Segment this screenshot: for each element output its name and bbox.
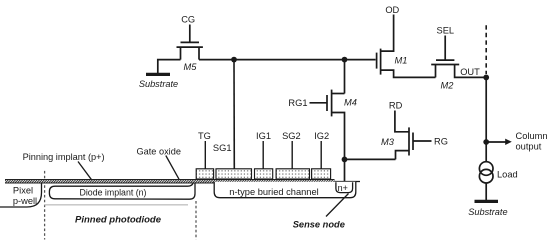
junction node M4 drain xyxy=(342,57,348,63)
junction node OUT xyxy=(483,75,489,81)
transistor M3 xyxy=(396,127,432,159)
wire junction down to SG1 gate xyxy=(233,60,235,169)
svg-text:output: output xyxy=(516,142,542,152)
wire junction down to M4 drain xyxy=(344,60,346,94)
wire OUT down to load xyxy=(485,77,487,161)
transistor M1 xyxy=(377,15,436,78)
transistor M4 xyxy=(327,90,345,160)
wire TG lead xyxy=(204,141,206,169)
svg-text:CG: CG xyxy=(181,15,195,25)
wire IG2 lead xyxy=(320,141,322,169)
wire load to ground xyxy=(485,183,487,201)
n+ sense diffusion box xyxy=(336,182,353,192)
svg-text:Substrate: Substrate xyxy=(468,207,507,217)
svg-text:IG1: IG1 xyxy=(256,131,271,141)
ground substrate right xyxy=(475,200,499,203)
junction node sense xyxy=(342,157,348,163)
wire SEL gate lead xyxy=(444,36,446,61)
wire RG1 gate lead xyxy=(310,102,328,104)
svg-text:IG2: IG2 xyxy=(314,131,329,141)
svg-text:M5: M5 xyxy=(184,62,198,72)
svg-text:n-type buried channel: n-type buried channel xyxy=(229,187,318,197)
n-type buried channel box xyxy=(214,182,356,198)
pointer pinning implant xyxy=(78,162,94,184)
svg-text:Diode implant (n): Diode implant (n) xyxy=(80,188,147,198)
svg-text:SEL: SEL xyxy=(437,26,455,36)
pinning implant / oxide hatched bar xyxy=(5,180,335,184)
ground substrate left xyxy=(146,73,170,76)
diode implant (n) box xyxy=(49,183,195,199)
wire column output arrow xyxy=(486,141,506,143)
wire sense node down to n+ xyxy=(344,159,346,183)
wire IG1 lead xyxy=(262,141,264,169)
gate TG xyxy=(196,169,213,179)
svg-text:Substrate: Substrate xyxy=(139,79,178,89)
wire dashed column line xyxy=(485,25,487,74)
p-well boundary curve xyxy=(0,183,42,207)
wire M5 source to ground xyxy=(158,60,181,74)
svg-text:Pinning implant (p+): Pinning implant (p+) xyxy=(23,152,105,162)
pointer sense node xyxy=(326,194,349,217)
gate IG1 xyxy=(255,169,273,179)
wire sense node horizontal xyxy=(345,158,396,160)
pointer gate oxide xyxy=(166,156,179,180)
gate IG2 xyxy=(312,169,331,179)
svg-text:RG1: RG1 xyxy=(288,98,307,108)
svg-text:Gate oxide: Gate oxide xyxy=(137,147,181,157)
svg-text:M2: M2 xyxy=(441,81,455,91)
junction node column output xyxy=(483,139,489,145)
svg-text:SG2: SG2 xyxy=(282,131,301,141)
transistor M2 xyxy=(431,60,486,77)
svg-text:RG: RG xyxy=(434,137,448,147)
transistor M5 xyxy=(177,42,203,59)
surface line over n+ xyxy=(335,181,361,183)
current source Load xyxy=(479,162,493,183)
gate SG1 xyxy=(216,169,252,179)
svg-text:n+: n+ xyxy=(338,183,348,193)
junction node SG1/CG xyxy=(231,57,237,63)
dashed boundary left xyxy=(44,171,46,240)
wire M5 drain to M1 gate xyxy=(199,59,376,61)
svg-text:SG1: SG1 xyxy=(213,143,232,153)
svg-text:M1: M1 xyxy=(395,56,408,66)
svg-text:Pinned photodiode: Pinned photodiode xyxy=(75,215,162,226)
photodiode lower faint boundary xyxy=(44,204,188,206)
svg-text:OUT: OUT xyxy=(460,67,480,77)
svg-text:Pixel: Pixel xyxy=(13,186,33,196)
svg-text:M4: M4 xyxy=(344,98,357,108)
svg-text:p-well: p-well xyxy=(13,196,37,206)
svg-text:Load: Load xyxy=(497,169,518,179)
wire CG gate lead xyxy=(189,25,191,43)
wire SG2 lead xyxy=(291,141,293,169)
svg-text:TG: TG xyxy=(198,131,211,141)
gate SG2 xyxy=(276,169,309,179)
svg-text:Sense node: Sense node xyxy=(293,220,345,230)
svg-text:RD: RD xyxy=(389,101,403,111)
wire RD drain lead xyxy=(395,111,409,132)
dashed boundary right xyxy=(195,201,197,240)
svg-text:Column: Column xyxy=(516,131,548,141)
svg-text:OD: OD xyxy=(385,5,399,15)
svg-text:M3: M3 xyxy=(381,137,395,147)
